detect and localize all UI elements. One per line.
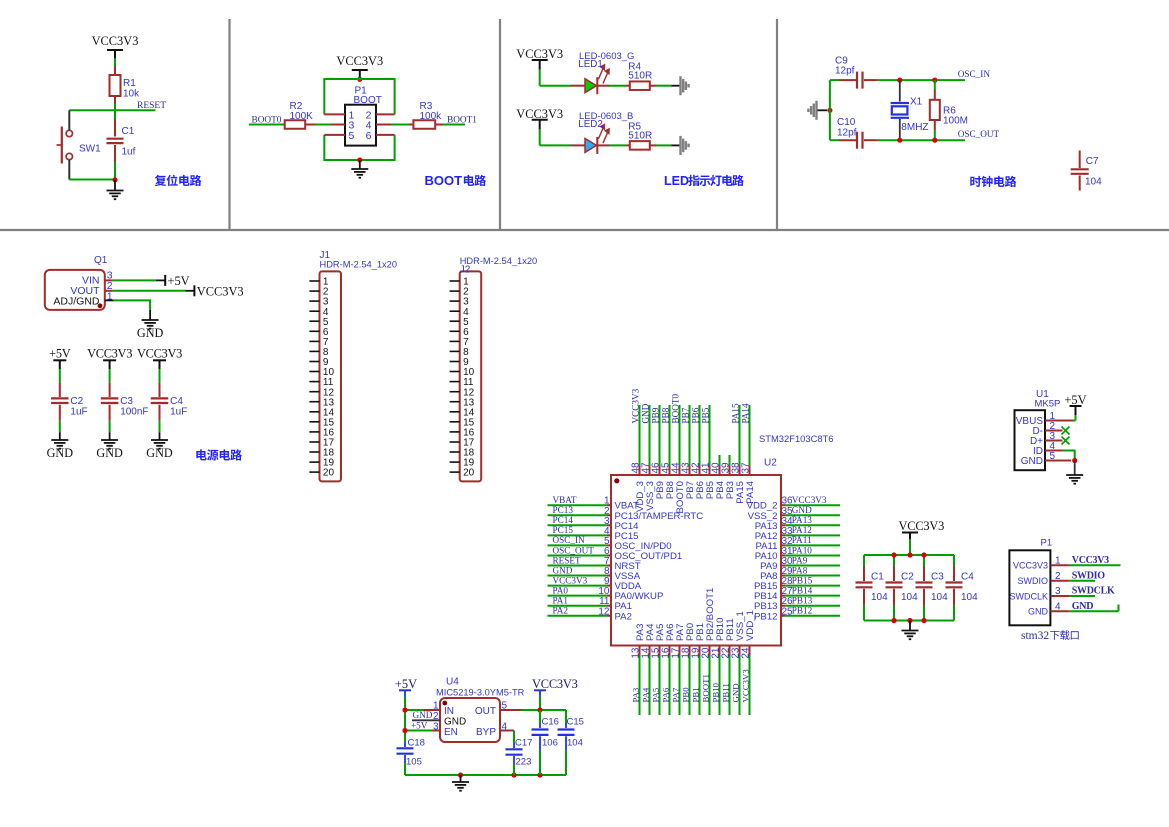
junction node U1 gnd xyxy=(1072,458,1077,463)
pin numbers U4 xyxy=(433,701,508,733)
U2 pin 45 PB8 (top) xyxy=(660,405,676,499)
regulator Q1 xyxy=(45,255,108,310)
wire LED1 to R xyxy=(598,85,630,87)
title BOOT电路 xyxy=(425,173,487,188)
wire clock left vertical xyxy=(829,80,831,140)
svg-text:MIC5219-3.0YM5-TR: MIC5219-3.0YM5-TR xyxy=(436,687,525,697)
svg-text:OSC_OUT: OSC_OUT xyxy=(553,545,595,555)
svg-text:BOOT0: BOOT0 xyxy=(670,393,680,423)
connector J1 HDR-M-2.54_1x20 xyxy=(320,250,398,481)
svg-text:PB8: PB8 xyxy=(660,407,670,423)
wire VCC3V3 to R1 xyxy=(114,58,116,75)
svg-text:C3: C3 xyxy=(120,396,133,407)
svg-text:SWDCLK: SWDCLK xyxy=(1072,586,1115,597)
ground (cap bank) xyxy=(902,621,919,640)
svg-text:PA11: PA11 xyxy=(792,535,812,545)
wire C9 to OSC_IN xyxy=(878,79,965,81)
svg-text:PA15: PA15 xyxy=(730,403,740,423)
svg-text:GND: GND xyxy=(96,446,123,460)
resistor R1 xyxy=(110,75,141,100)
label stm32下载口 xyxy=(1021,630,1079,642)
svg-text:HDR-M-2.54_1x20: HDR-M-2.54_1x20 xyxy=(320,259,398,269)
svg-text:PA7: PA7 xyxy=(670,687,680,702)
U2 pin 4 PC15 (left) xyxy=(548,525,639,542)
U2 pin 21 PB10 (bottom) xyxy=(710,618,726,715)
U2 pin 27 PB14 (right) xyxy=(754,585,840,602)
no-connect X pin2 xyxy=(1045,427,1070,435)
title LED指示灯电路 xyxy=(664,174,744,188)
U2 pin 42 PB6 (top) xyxy=(690,405,706,499)
junction node reset-gnd xyxy=(112,177,117,182)
wire U4 GND + net label xyxy=(412,710,440,720)
title 时钟电路 xyxy=(970,176,1016,187)
svg-text:PA13: PA13 xyxy=(792,515,812,525)
junction node boot-vcc xyxy=(357,77,362,82)
capacitor C4 (cap bank) xyxy=(946,555,979,621)
capacitor C3 (cap bank) xyxy=(916,555,949,621)
svg-text:OUT: OUT xyxy=(475,706,496,717)
wire U4 OUT to VCC3V3 xyxy=(500,709,566,711)
power VCC3V3 (boot section) xyxy=(336,54,383,79)
ground (USB) xyxy=(1066,461,1083,484)
svg-text:104: 104 xyxy=(1085,177,1102,188)
svg-text:C2: C2 xyxy=(70,396,83,407)
svg-text:+5V: +5V xyxy=(168,274,190,288)
svg-text:1uF: 1uF xyxy=(170,407,187,418)
svg-text:LED: LED xyxy=(664,174,689,188)
svg-text:ADJ/GND: ADJ/GND xyxy=(53,296,100,308)
svg-text:SWDCLK: SWDCLK xyxy=(1009,591,1048,601)
svg-text:PB1: PB1 xyxy=(690,687,700,702)
U2 pin 8 VSSA (left) xyxy=(548,565,641,582)
svg-text:VCC3V3: VCC3V3 xyxy=(899,519,945,533)
svg-text:VCC3V3: VCC3V3 xyxy=(87,347,132,361)
svg-text:105: 105 xyxy=(406,757,422,768)
P1 pin 4 GND xyxy=(1028,601,1119,617)
capacitor C9 xyxy=(830,56,878,89)
svg-text:104: 104 xyxy=(961,592,978,603)
svg-text:SWDIO: SWDIO xyxy=(1072,570,1105,581)
svg-text:RESET: RESET xyxy=(553,555,581,565)
wire U4 bottom bus xyxy=(405,774,566,776)
no-connect X pin3 xyxy=(1045,437,1070,445)
U2 pin 6 OSC_OUT/PD1 (left) xyxy=(548,545,683,562)
P1 pin 3 SWDCLK xyxy=(1009,586,1114,602)
power VCC3V3 (LED row 2) xyxy=(516,107,563,145)
wire bottom (SW1 to C1) xyxy=(69,179,115,181)
svg-text:+5V: +5V xyxy=(395,677,417,691)
svg-text:BOOT1: BOOT1 xyxy=(700,674,710,702)
power VCC3V3 (cap C4) xyxy=(137,347,182,370)
U2 pin 24 VDD_1 (bottom) xyxy=(740,610,756,715)
svg-text:PB14: PB14 xyxy=(792,585,813,595)
U2 pin 14 PA4 (bottom) xyxy=(640,623,656,715)
wire R to ground (LED row 1) xyxy=(650,85,680,87)
wire cap bank top bus xyxy=(864,554,954,556)
U2 pin 36 VDD_2 (right) xyxy=(747,495,840,512)
svg-text:C1: C1 xyxy=(122,126,135,137)
power VCC3V3 (cap bank) xyxy=(899,519,945,555)
wire VCC to LED1 xyxy=(540,85,585,87)
svg-text:100k: 100k xyxy=(420,111,443,122)
ground (Q1) xyxy=(137,320,164,340)
P1 pin 2 SWDIO xyxy=(1018,570,1106,586)
svg-text:PA5: PA5 xyxy=(650,687,660,702)
wire VCC to LED2 xyxy=(540,144,585,146)
U2 pin 5 OSC_IN/PD0 (left) xyxy=(548,535,672,552)
svg-text:104: 104 xyxy=(931,592,948,603)
ground (cap C3) xyxy=(96,432,123,460)
U2 pin 46 PB9 (top) xyxy=(650,405,666,499)
svg-text:+5V: +5V xyxy=(49,347,71,361)
U2 pin 3 PC14 (left) xyxy=(548,515,640,532)
power +5V (cap C2) xyxy=(49,347,71,370)
svg-text:106: 106 xyxy=(542,738,558,749)
U2 pin 2 PC13/TAMPER-RTC (left) xyxy=(548,505,704,522)
wire +5V rail (U4) xyxy=(404,697,406,742)
pin numbers Q1 xyxy=(107,269,113,302)
svg-text:PB10: PB10 xyxy=(710,682,720,702)
junction nodes top (clock) xyxy=(897,78,902,83)
svg-text:GND: GND xyxy=(1021,456,1043,467)
U2 pin 18 PB0 (bottom) xyxy=(680,623,696,715)
svg-text:37: 37 xyxy=(740,462,751,474)
divider vertical 1 xyxy=(228,19,230,230)
svg-text:U2: U2 xyxy=(764,458,777,469)
svg-text:C15: C15 xyxy=(567,717,584,728)
svg-text:510R: 510R xyxy=(628,71,652,82)
svg-text:J2: J2 xyxy=(460,265,471,276)
LED LED2 xyxy=(578,111,633,154)
svg-text:PA10: PA10 xyxy=(792,545,812,555)
ground sideways (LED row 1) xyxy=(681,76,689,95)
ground (cap C2) xyxy=(47,432,74,460)
wire C1 to ground node xyxy=(114,162,116,180)
svg-text:PA12: PA12 xyxy=(792,525,812,535)
U1 pin 3 D+ xyxy=(1030,431,1056,447)
svg-text:PA9: PA9 xyxy=(792,555,808,565)
U2 pin 28 PB15 (right) xyxy=(754,575,840,592)
svg-text:C17: C17 xyxy=(515,738,532,749)
svg-text:GND: GND xyxy=(444,717,466,728)
U2 pin 15 PA5 (bottom) xyxy=(650,624,666,715)
ground (reset) xyxy=(107,180,124,199)
resistor R3 xyxy=(413,101,442,129)
svg-text:104: 104 xyxy=(901,592,918,603)
power VCC3V3 (LED row 1) xyxy=(516,47,563,85)
svg-text:BOOT1: BOOT1 xyxy=(447,116,477,126)
U2 pin 41 PB5 (top) xyxy=(700,405,716,499)
svg-text:GND: GND xyxy=(1028,607,1049,617)
pin stubs P1 xyxy=(324,114,394,134)
junction node clock-left xyxy=(827,108,832,113)
svg-text:BOOT: BOOT xyxy=(425,173,463,188)
svg-text:IN: IN xyxy=(444,706,454,717)
svg-text:8MHZ: 8MHZ xyxy=(901,122,928,133)
resistor R4 xyxy=(628,62,652,90)
svg-text:100M: 100M xyxy=(943,116,968,127)
svg-text:GND: GND xyxy=(553,565,573,575)
capacitor C17 xyxy=(506,738,533,776)
svg-text:BYP: BYP xyxy=(476,727,496,738)
wire U1 ID loop xyxy=(1045,451,1075,461)
svg-text:P1: P1 xyxy=(1041,537,1053,548)
U2 pin 44 BOOT0 (top) xyxy=(670,393,686,513)
U2 pin 20 PB2/BOOT1 (bottom) xyxy=(700,588,716,715)
svg-text:PA2: PA2 xyxy=(553,606,569,616)
svg-text:GND: GND xyxy=(640,403,650,423)
MCU U2 STM32F103C8T6 body xyxy=(611,433,834,646)
svg-text:104: 104 xyxy=(871,592,888,603)
svg-text:VCC3V3: VCC3V3 xyxy=(532,677,578,691)
power VCC3V3 (cap C3) xyxy=(87,347,132,370)
svg-text:C4: C4 xyxy=(961,572,974,583)
U2 pin 13 PA3 (bottom) xyxy=(630,624,646,715)
capacitor C3 xyxy=(101,369,149,432)
U2 pin 12 PA2 (left) xyxy=(548,606,632,623)
svg-text:PA4: PA4 xyxy=(640,687,650,702)
capacitor C4 xyxy=(151,369,188,432)
U2 pin 30 PA9 (right) xyxy=(760,555,840,572)
capacitor C7 xyxy=(1071,151,1102,191)
U1 pin 2 D- xyxy=(1032,421,1055,437)
junction nodes cap bank xyxy=(891,552,896,557)
wire Q1 ADJ to GND xyxy=(105,300,150,319)
svg-text:OSC_OUT: OSC_OUT xyxy=(958,129,1000,139)
wire U1 VBUS to +5V xyxy=(1045,420,1076,422)
svg-text:PB13: PB13 xyxy=(792,596,813,606)
svg-text:PB9: PB9 xyxy=(650,407,660,423)
wire LED2 to R xyxy=(598,144,630,146)
U2 pin 47 VSS_3 (top) xyxy=(640,403,656,511)
U2 pin 37 PA14 (top) xyxy=(740,403,756,504)
svg-text:VDD_1: VDD_1 xyxy=(745,610,756,641)
svg-text:C3: C3 xyxy=(931,572,944,583)
wire C10 to OSC_OUT xyxy=(878,139,965,141)
svg-text:STM32F103C8T6: STM32F103C8T6 xyxy=(759,433,834,444)
wire U1 GND pin xyxy=(1045,460,1071,462)
U2 pin 9 VDDA (left) xyxy=(548,575,642,592)
divider horizontal xyxy=(0,229,1169,231)
svg-text:SWDIO: SWDIO xyxy=(1018,576,1049,586)
svg-text:GND: GND xyxy=(137,326,164,340)
svg-text:VCC3V3: VCC3V3 xyxy=(336,54,383,68)
svg-text:PA8: PA8 xyxy=(792,565,808,575)
regulator U4 MIC5219 xyxy=(436,677,525,743)
U2 pin 29 PA8 (right) xyxy=(760,565,840,582)
junction nodes bottom (clock) xyxy=(897,138,902,143)
svg-text:HDR-M-2.54_1x20: HDR-M-2.54_1x20 xyxy=(460,256,538,266)
svg-text:+5V: +5V xyxy=(1064,393,1086,407)
svg-text:VCC3V3: VCC3V3 xyxy=(137,347,182,361)
U2 pin 32 PA11 (right) xyxy=(755,535,840,552)
pin numbers J1 xyxy=(323,277,335,479)
svg-text:PB7: PB7 xyxy=(680,407,690,423)
wire cap bank bottom bus xyxy=(864,620,954,622)
svg-text:OSC_IN: OSC_IN xyxy=(958,69,991,79)
svg-text:SW1: SW1 xyxy=(79,144,101,155)
svg-text:VCC3V3: VCC3V3 xyxy=(792,495,827,505)
U2 pin 38 PA15 (top) xyxy=(730,403,746,504)
U2 pin 33 PA12 (right) xyxy=(755,525,840,542)
svg-text:C7: C7 xyxy=(1086,156,1099,167)
svg-text:U4: U4 xyxy=(446,677,459,688)
svg-text:VCC3V3: VCC3V3 xyxy=(197,284,244,298)
wire SW1 left branch xyxy=(68,110,70,179)
svg-text:1uF: 1uF xyxy=(70,407,87,418)
svg-text:X1: X1 xyxy=(910,97,923,108)
wire P1 pin4 to R3 xyxy=(376,124,413,126)
capacitor C18 xyxy=(397,738,425,776)
capacitor C2 (cap bank) xyxy=(886,555,919,621)
wire boot bottom loop xyxy=(324,135,394,160)
U1 pin 5 GND xyxy=(1021,451,1056,467)
svg-text:12: 12 xyxy=(598,606,610,617)
svg-text:1uf: 1uf xyxy=(122,147,136,158)
svg-text:OSC_IN: OSC_IN xyxy=(553,535,586,545)
divider vertical 3 xyxy=(776,19,778,230)
svg-text:GND: GND xyxy=(730,683,740,702)
resistor R6 xyxy=(930,80,968,140)
power +5V (USB) xyxy=(1064,393,1086,421)
power +5V (Q1) xyxy=(165,274,189,288)
U2 pin 25 PB12 (right) xyxy=(754,606,840,623)
junction U4 out xyxy=(537,707,542,712)
pin stubs J2 xyxy=(450,281,460,472)
svg-text:VCC3V3: VCC3V3 xyxy=(630,388,640,423)
svg-text:12pf: 12pf xyxy=(837,128,857,139)
connector P1 SWD xyxy=(1009,537,1052,625)
title 复位电路 xyxy=(155,175,202,186)
U2 pin 22 PB11 (bottom) xyxy=(720,618,736,715)
junction nodes U4 bus xyxy=(458,772,463,777)
divider vertical 2 xyxy=(499,19,501,230)
wire boot top loop xyxy=(324,79,394,114)
wire U4 EN + net label xyxy=(405,720,440,730)
svg-text:GND: GND xyxy=(1072,601,1093,612)
capacitor C1 (cap bank) xyxy=(856,555,889,621)
ground sideways (clock) xyxy=(808,101,827,120)
svg-text:EN: EN xyxy=(444,727,458,738)
power VCC3V3 (U4) xyxy=(532,677,578,710)
svg-text:PC14: PC14 xyxy=(553,515,574,525)
U2 pin 43 PB7 (top) xyxy=(680,405,696,499)
svg-text:VCC3V3: VCC3V3 xyxy=(92,34,139,48)
power VCC3V3 (reset section) xyxy=(92,34,139,58)
svg-text:VCC3V3: VCC3V3 xyxy=(1013,561,1048,571)
P1 pin 1 VCC3V3 xyxy=(1013,555,1121,571)
svg-text:20: 20 xyxy=(323,468,335,479)
svg-text:PA3: PA3 xyxy=(630,687,640,702)
ground (U4) xyxy=(452,775,469,791)
LED LED1 xyxy=(578,51,634,94)
svg-text:+5V: +5V xyxy=(411,720,428,730)
svg-text:GND: GND xyxy=(792,505,812,515)
svg-text:LED2: LED2 xyxy=(578,119,603,130)
junction U4 en xyxy=(402,728,407,733)
svg-text:104: 104 xyxy=(567,738,583,749)
svg-text:PC15: PC15 xyxy=(553,525,574,535)
U2 pin 40 PB4 (top) xyxy=(710,455,726,499)
U2 pin 10 PA0/WKUP (left) xyxy=(548,585,664,602)
wire R2 to P1 pin3 xyxy=(305,124,345,126)
switch SW1 xyxy=(57,127,102,164)
svg-text:C2: C2 xyxy=(901,572,914,583)
wire RESET horizontal xyxy=(69,109,155,111)
crystal X1 xyxy=(891,80,929,140)
power +5V (U4) xyxy=(395,677,417,697)
svg-text:10k: 10k xyxy=(123,89,140,100)
wire Q1 VIN to +5V xyxy=(105,279,165,281)
svg-text:510R: 510R xyxy=(628,130,652,141)
svg-text:PA14: PA14 xyxy=(740,403,750,423)
junction U4 in xyxy=(402,707,407,712)
svg-text:24: 24 xyxy=(740,647,751,659)
capacitor C15 xyxy=(558,710,584,775)
svg-text:VCC3V3: VCC3V3 xyxy=(553,575,588,585)
U2 pin 19 PB1 (bottom) xyxy=(690,623,706,715)
svg-text:C16: C16 xyxy=(542,717,559,728)
title 电源电路 xyxy=(196,449,242,460)
svg-text:GND: GND xyxy=(146,446,173,460)
pin stubs J1 xyxy=(309,281,319,472)
U2 pin 26 PB13 (right) xyxy=(754,596,840,613)
svg-text:BOOT: BOOT xyxy=(354,95,382,106)
svg-text:PB11: PB11 xyxy=(720,683,730,702)
wire BOOT0 xyxy=(249,124,285,126)
svg-text:GND: GND xyxy=(413,710,433,720)
svg-text:PB0: PB0 xyxy=(680,687,690,703)
svg-text:LED1: LED1 xyxy=(578,59,603,70)
U2 pin 39 PB3 (top) xyxy=(720,455,736,499)
svg-text:PA0: PA0 xyxy=(553,585,569,595)
U2 pin 31 PA10 (right) xyxy=(755,545,840,562)
junction node boot-gnd xyxy=(357,157,362,162)
U2 pin 11 PA1 (left) xyxy=(548,596,632,613)
capacitor C10 xyxy=(830,117,878,149)
svg-text:R1: R1 xyxy=(123,78,136,89)
wire R1 to RESET node xyxy=(114,96,116,119)
U2 pin 1 VBAT (left) xyxy=(548,495,639,512)
U1 pin 1 VBUS xyxy=(1016,411,1056,427)
svg-text:PB12: PB12 xyxy=(792,606,813,616)
connector J2 HDR-M-2.54_1x20 xyxy=(460,256,538,481)
svg-text:PB6: PB6 xyxy=(690,407,700,423)
ground (cap C4) xyxy=(146,432,173,460)
svg-text:GND: GND xyxy=(47,446,74,460)
U1 pin 4 ID xyxy=(1033,441,1056,457)
svg-text:C4: C4 xyxy=(170,396,183,407)
svg-text:PA6: PA6 xyxy=(660,687,670,702)
svg-text:PB12: PB12 xyxy=(754,611,777,622)
ground sideways (LED row 2) xyxy=(681,136,689,155)
capacitor C1 xyxy=(107,119,136,162)
svg-text:C1: C1 xyxy=(871,572,884,583)
svg-text:PB15: PB15 xyxy=(792,575,813,585)
resistor R2 xyxy=(285,101,313,129)
wire R3 to BOOT1 xyxy=(435,124,465,126)
power VCC3V3 (Q1) xyxy=(194,284,243,298)
resistor R5 xyxy=(628,121,652,149)
U2 pin 7 NRST (left) xyxy=(548,555,641,572)
svg-text:PA14: PA14 xyxy=(745,480,756,503)
svg-text:12pf: 12pf xyxy=(835,66,855,77)
wire U4 BYP to C17 xyxy=(500,731,514,744)
ground (boot) xyxy=(351,160,368,178)
svg-text:20: 20 xyxy=(463,468,475,479)
wire Q1 VOUT to VCC3V3 xyxy=(105,290,194,292)
svg-text:Q1: Q1 xyxy=(94,255,108,266)
